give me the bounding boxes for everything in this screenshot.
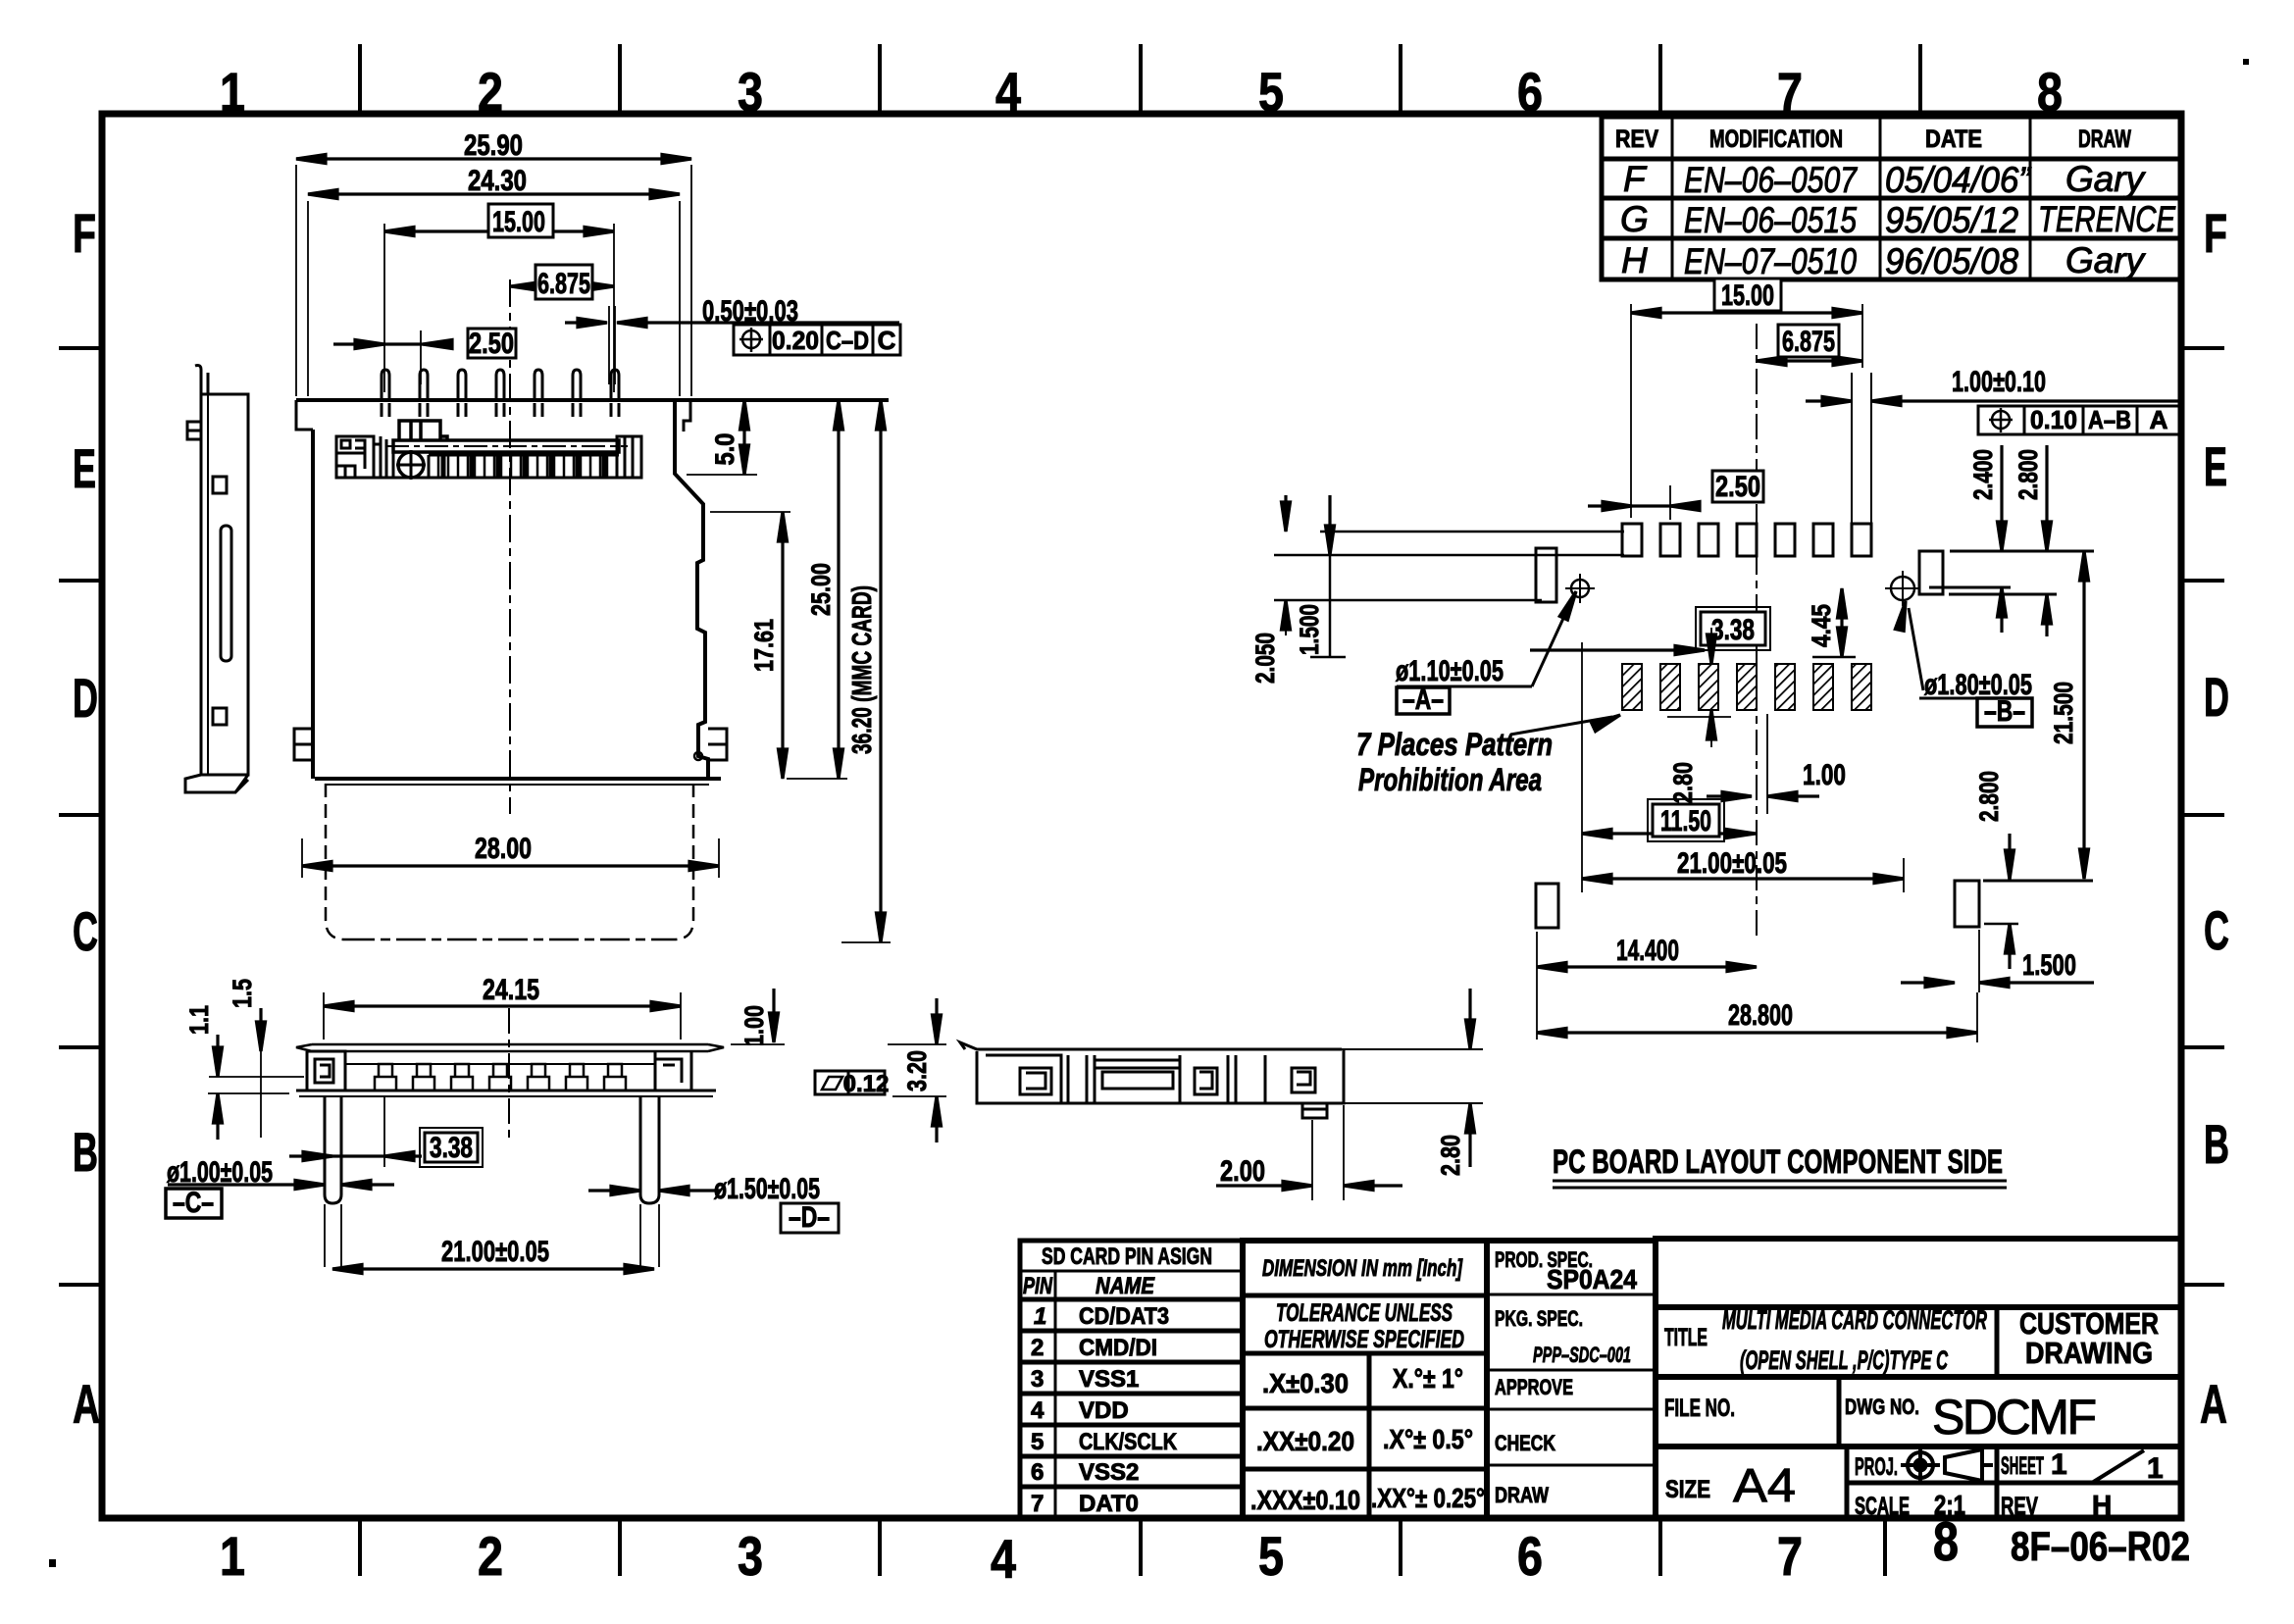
svg-text:DRAWING: DRAWING <box>2025 1336 2153 1370</box>
svg-text:REV: REV <box>2001 1493 2038 1520</box>
svg-text:0.50±0.03: 0.50±0.03 <box>702 295 798 328</box>
leg extension lines <box>325 1096 659 1267</box>
svg-text:–C–: –C– <box>173 1187 214 1219</box>
svg-text:21.00±0.05: 21.00±0.05 <box>1677 847 1787 880</box>
svg-text:APPROVE: APPROVE <box>1495 1375 1573 1399</box>
svg-text:REV: REV <box>1615 126 1658 153</box>
border row letters right <box>2200 202 2229 1435</box>
feature control frame A-B <box>1978 406 2181 434</box>
sheet slash <box>2092 1450 2144 1483</box>
hatched pad 7 <box>1852 664 1871 710</box>
svg-text:VSS1: VSS1 <box>1079 1366 1139 1393</box>
svg-text:PIN: PIN <box>1023 1273 1052 1299</box>
svg-text:A–B: A–B <box>2088 405 2131 434</box>
center line <box>509 279 511 814</box>
svg-text:28.800: 28.800 <box>1728 999 1793 1032</box>
dim 28.800 <box>1537 992 1977 1042</box>
svg-text:MODIFICATION: MODIFICATION <box>1709 126 1843 153</box>
side view long slot <box>221 526 231 661</box>
side view left tab <box>187 422 201 439</box>
trace line top <box>1320 531 1624 533</box>
shell left edge <box>311 430 315 779</box>
svg-text:C: C <box>2204 899 2229 961</box>
right end block <box>655 1051 682 1091</box>
main block <box>1656 1239 2181 1518</box>
main block text <box>1664 1305 2164 1520</box>
dim 2.50 boxed (pcb) <box>1588 471 1763 520</box>
svg-text:PROJ.: PROJ. <box>1855 1453 1898 1481</box>
pin 5 <box>535 370 542 417</box>
card bottom center line <box>345 939 674 941</box>
svg-text:6.875: 6.875 <box>537 268 590 300</box>
right ref lines <box>1342 1048 1483 1050</box>
stray dots <box>2243 59 2249 65</box>
svg-text:1.500: 1.500 <box>1295 604 1324 655</box>
svg-text:TOLERANCE UNLESS: TOLERANCE UNLESS <box>1276 1299 1453 1327</box>
svg-text:.X°± 0.5°: .X°± 0.5° <box>1383 1424 1473 1454</box>
hatched pad 6 <box>1813 664 1833 710</box>
svg-text:14.400: 14.400 <box>1616 935 1679 967</box>
dim 21.00±0.05 (pcb) <box>1582 642 1904 892</box>
svg-text:SCALE: SCALE <box>1855 1493 1910 1520</box>
left ticks <box>59 346 102 350</box>
svg-text:.XX°± 0.25°: .XX°± 0.25° <box>1371 1483 1485 1513</box>
svg-text:TITLE: TITLE <box>1664 1324 1708 1351</box>
svg-text:–A–: –A– <box>1402 684 1444 716</box>
pad 7 edge extensions <box>1851 373 1853 524</box>
svg-text:SDCMF: SDCMF <box>1932 1390 2097 1445</box>
dim 25.00 <box>787 400 847 779</box>
hole A <box>1571 580 1589 597</box>
pin 7 <box>611 370 619 417</box>
projection symbol <box>1901 1446 1993 1485</box>
svg-text:SD CARD PIN ASIGN: SD CARD PIN ASIGN <box>1042 1243 1212 1270</box>
pin 4 <box>496 370 504 417</box>
svg-text:7: 7 <box>1777 1525 1803 1587</box>
top plate with tip <box>960 1042 1342 1049</box>
svg-text:F: F <box>73 202 96 264</box>
svg-text:5: 5 <box>1031 1429 1044 1455</box>
svg-text:2:1: 2:1 <box>1934 1490 1965 1520</box>
svg-text:1: 1 <box>1034 1303 1046 1330</box>
dim 21.500 <box>1950 551 2094 879</box>
svg-text:1: 1 <box>2051 1448 2067 1481</box>
svg-text:8: 8 <box>2037 61 2063 123</box>
svg-text:11.50: 11.50 <box>1660 805 1711 837</box>
svg-text:2.800: 2.800 <box>2014 449 2043 500</box>
dim 3.38 boxed (pcb) <box>1530 607 1770 655</box>
pin 1 <box>382 370 389 417</box>
svg-text:B: B <box>2204 1113 2229 1175</box>
svg-text:F: F <box>2204 202 2227 264</box>
bottom foot <box>1302 1103 1327 1118</box>
label ø1.10±0.05 -A- <box>1396 589 1580 716</box>
bottom right pad <box>1955 881 1979 927</box>
dim 24.30 <box>308 165 680 396</box>
dim 24.15 <box>324 974 681 1040</box>
svg-text:2.00: 2.00 <box>1220 1155 1265 1188</box>
svg-text:.X±0.30: .X±0.30 <box>1262 1368 1349 1398</box>
svg-text:15.00: 15.00 <box>1721 279 1774 312</box>
svg-text:Gary: Gary <box>2065 159 2146 199</box>
left mount tab <box>294 729 313 760</box>
pin 6 <box>573 370 581 417</box>
right mount tab <box>708 729 727 760</box>
svg-text:PPP–SDC–001: PPP–SDC–001 <box>1533 1343 1631 1367</box>
svg-text:D: D <box>73 667 98 729</box>
left anchor pad <box>1536 548 1556 602</box>
dim 1.5 <box>228 979 266 1138</box>
dim 2.400 <box>1968 445 2007 633</box>
contact right end block <box>617 436 641 478</box>
svg-text:3: 3 <box>738 61 763 123</box>
svg-text:3: 3 <box>738 1525 763 1587</box>
dim 11.50 boxed <box>1582 799 1756 841</box>
dim 14.400 <box>1537 932 1757 1040</box>
svg-text:2.400: 2.400 <box>1968 449 1998 500</box>
svg-text:05/04/06”: 05/04/06” <box>1885 160 2032 200</box>
svg-text:C: C <box>73 900 98 962</box>
svg-text:DWG NO.: DWG NO. <box>1845 1395 1919 1419</box>
svg-text:DAT0: DAT0 <box>1079 1491 1139 1517</box>
feature control frame C-D <box>734 325 900 355</box>
svg-text:2.50: 2.50 <box>469 328 514 360</box>
contact comb band <box>336 455 641 478</box>
svg-text:SP0A24: SP0A24 <box>1547 1264 1637 1294</box>
hatched pad 4 <box>1737 664 1757 710</box>
dim ø1.00±0.05 -C- <box>166 1156 394 1219</box>
svg-text:5: 5 <box>1258 61 1284 123</box>
svg-text:C–D: C–D <box>826 326 869 355</box>
svg-text:CHECK: CHECK <box>1495 1431 1555 1455</box>
svg-text:3.38: 3.38 <box>430 1132 473 1164</box>
svg-text:G: G <box>1620 199 1649 239</box>
right leg <box>640 1096 659 1203</box>
pad 1 <box>1622 524 1642 556</box>
side view body <box>201 394 248 775</box>
svg-text:2: 2 <box>478 1525 503 1587</box>
svg-text:0.12: 0.12 <box>843 1071 890 1097</box>
dim 3.38 boxed <box>289 1128 483 1167</box>
left end block <box>307 1051 345 1091</box>
tolerance block <box>1243 1241 1487 1518</box>
svg-text:B: B <box>73 1121 98 1183</box>
hatched pad 5 <box>1775 664 1795 710</box>
svg-text:6: 6 <box>1517 1525 1543 1587</box>
approval block text <box>1495 1247 1637 1507</box>
svg-text:24.30: 24.30 <box>468 165 527 197</box>
svg-text:2.800: 2.800 <box>1974 771 2004 822</box>
svg-text:OTHERWISE SPECIFIED: OTHERWISE SPECIFIED <box>1264 1326 1464 1353</box>
svg-text:E: E <box>73 437 96 499</box>
dim 17.61 <box>710 512 790 779</box>
svg-text:95/05/12: 95/05/12 <box>1885 200 2018 240</box>
dim 2.80 (side view 2) <box>1436 989 1475 1176</box>
dim 21.00±0.05 (bottom view) <box>332 1236 654 1274</box>
card outline dashed right <box>674 784 693 939</box>
svg-text:NAME: NAME <box>1096 1273 1155 1299</box>
side view lower inner square <box>213 708 227 725</box>
svg-text:3.38: 3.38 <box>1711 614 1755 646</box>
latch plate <box>374 436 393 479</box>
side view bottom foot <box>185 775 248 792</box>
svg-text:EN–06–0507: EN–06–0507 <box>1684 160 1858 200</box>
svg-text:C: C <box>878 326 896 355</box>
svg-text:1.00±0.10: 1.00±0.10 <box>1952 366 2046 398</box>
svg-text:3: 3 <box>1031 1366 1044 1393</box>
svg-text:6: 6 <box>1031 1459 1044 1486</box>
tolerance block text <box>1262 1255 1463 1282</box>
pad 2 <box>1660 524 1680 556</box>
dim 1.00 (bottom view) <box>731 989 785 1046</box>
svg-text:3.20: 3.20 <box>902 1050 932 1091</box>
border row letters left <box>73 202 100 1435</box>
side view top pin <box>195 366 208 395</box>
svg-text:0.10: 0.10 <box>2030 405 2077 434</box>
body <box>977 1049 1344 1103</box>
svg-text:–B–: –B– <box>1984 695 2025 728</box>
svg-text:28.00: 28.00 <box>475 833 532 865</box>
svg-text:25.90: 25.90 <box>464 129 523 162</box>
border zone numbers bottom <box>220 1510 1959 1590</box>
dim 1.00±0.10 <box>1806 366 2183 406</box>
dim 6.875 boxed <box>511 265 614 300</box>
svg-text:DATE: DATE <box>1925 126 1982 153</box>
svg-text:A: A <box>2200 1373 2227 1435</box>
svg-text:5.0: 5.0 <box>710 433 739 466</box>
svg-text:2.050: 2.050 <box>1250 633 1280 684</box>
body outline <box>307 1051 691 1091</box>
svg-text:1.00: 1.00 <box>739 1005 769 1046</box>
dim 4.45 <box>1807 588 1856 657</box>
svg-text:ø1.00±0.05: ø1.00±0.05 <box>167 1156 273 1189</box>
svg-text:–D–: –D– <box>789 1201 830 1234</box>
dim 36.20 (MMC CARD) <box>841 400 891 942</box>
trace line hole-A <box>1274 599 1542 602</box>
svg-text:17.61: 17.61 <box>749 619 779 672</box>
dim 28.00 <box>302 833 719 878</box>
svg-text:A: A <box>73 1373 100 1435</box>
pin 2 <box>420 370 428 417</box>
svg-text:X.°± 1°: X.°± 1° <box>1393 1363 1463 1394</box>
contact block top bar <box>393 440 619 452</box>
dim 2.80 (pcb) <box>1667 628 1731 803</box>
svg-text:EN–07–0510: EN–07–0510 <box>1684 241 1857 281</box>
shell bottom edge <box>315 777 721 781</box>
bottom left pad <box>1536 884 1558 928</box>
svg-text:D: D <box>2204 666 2229 728</box>
svg-text:4: 4 <box>991 1528 1016 1590</box>
svg-text:Gary: Gary <box>2065 240 2146 280</box>
connector shell top edge <box>296 398 889 402</box>
svg-text:2: 2 <box>1031 1335 1044 1361</box>
pad 3 <box>1699 524 1718 556</box>
svg-text:0.20: 0.20 <box>772 326 819 355</box>
svg-text:CMD/DI: CMD/DI <box>1079 1335 1157 1361</box>
svg-text:1: 1 <box>220 61 245 123</box>
shell right profile <box>675 400 708 779</box>
svg-text:CLK/SCLK: CLK/SCLK <box>1079 1429 1178 1455</box>
svg-text:6: 6 <box>1517 61 1543 123</box>
bottom ticks <box>358 1518 362 1576</box>
svg-text:DRAW: DRAW <box>2078 126 2131 153</box>
svg-text:(OPEN SHELL ,P/C)TYPE C: (OPEN SHELL ,P/C)TYPE C <box>1740 1345 1948 1375</box>
dim 25.90 <box>296 129 691 396</box>
pin table <box>1020 1241 1243 1518</box>
svg-text:Prohibition Area: Prohibition Area <box>1358 762 1542 797</box>
svg-text:DIMENSION IN mm [Inch]: DIMENSION IN mm [Inch] <box>1262 1255 1463 1282</box>
dim 2.50 boxed <box>333 328 516 384</box>
trace line middle <box>1274 554 1624 557</box>
svg-text:1.00: 1.00 <box>1803 759 1846 791</box>
shell right lip <box>684 400 690 431</box>
svg-text:8F–06–R02: 8F–06–R02 <box>2011 1523 2190 1569</box>
pad 6 <box>1813 524 1833 556</box>
hatched pad 1 <box>1622 664 1642 710</box>
svg-text:E: E <box>2204 435 2227 497</box>
dim 0.50±0.03 <box>565 295 899 384</box>
svg-text:2.50: 2.50 <box>1715 471 1760 503</box>
note 7 places pattern <box>1356 711 1622 797</box>
dim 3.20 <box>888 998 946 1142</box>
svg-text:VSS2: VSS2 <box>1079 1459 1139 1486</box>
svg-text:25.00: 25.00 <box>806 563 836 616</box>
dim 2.800 (lower right) <box>1974 771 2093 969</box>
dim 1.00 (pcb) <box>1707 714 1846 814</box>
dim 1.1 <box>184 1005 304 1140</box>
svg-text:SHEET: SHEET <box>2001 1452 2044 1480</box>
hole B <box>1891 577 1914 600</box>
dim 1.500 (pcb left) <box>1295 495 1346 657</box>
dim 2.800 top <box>2014 445 2052 636</box>
contact housing left block <box>336 436 374 478</box>
top bar centerline <box>385 445 628 447</box>
hatched pad 2 <box>1660 664 1680 710</box>
svg-text:H: H <box>2092 1490 2112 1520</box>
flatness frame 0.12 <box>815 1071 885 1094</box>
pad 7 <box>1852 524 1871 556</box>
inner blocks <box>986 1055 1068 1103</box>
svg-text:4: 4 <box>995 61 1021 123</box>
svg-text:1: 1 <box>2147 1452 2164 1485</box>
svg-text:SIZE: SIZE <box>1665 1476 1710 1503</box>
hatched pad 3 <box>1699 664 1718 710</box>
svg-text:6.875: 6.875 <box>1782 326 1835 358</box>
svg-text:F: F <box>1623 159 1648 199</box>
screw boss <box>398 452 424 478</box>
svg-text:1: 1 <box>220 1525 245 1587</box>
svg-text:7: 7 <box>1777 61 1803 123</box>
right ticks <box>2181 346 2224 350</box>
label ø1.80±0.05 -B- <box>1895 600 2032 728</box>
svg-text:7: 7 <box>1031 1491 1044 1517</box>
svg-text:DRAW: DRAW <box>1495 1483 1549 1507</box>
svg-text:A4: A4 <box>1733 1460 1796 1512</box>
svg-text:.XX±0.20: .XX±0.20 <box>1256 1426 1354 1456</box>
svg-text:MULTI MEDIA CARD CONNECTOR: MULTI MEDIA CARD CONNECTOR <box>1722 1305 1987 1335</box>
contact feet row <box>375 1064 626 1091</box>
top plate <box>296 1044 724 1051</box>
centerline bottom view <box>508 1008 510 1138</box>
svg-text:2.80: 2.80 <box>1436 1135 1465 1176</box>
svg-text:15.00: 15.00 <box>492 206 545 238</box>
right anchor pad <box>1919 551 1943 594</box>
svg-text:TERENCE: TERENCE <box>2038 199 2176 239</box>
left leg <box>325 1096 341 1203</box>
svg-text:EN–06–0515: EN–06–0515 <box>1684 200 1857 240</box>
dim 5.0 <box>687 400 757 475</box>
svg-text:CD/DAT3: CD/DAT3 <box>1079 1303 1169 1330</box>
svg-text:FILE NO.: FILE NO. <box>1664 1395 1735 1422</box>
card outline dashed left <box>326 784 345 939</box>
pad 5 <box>1775 524 1795 556</box>
approval block <box>1487 1241 1656 1518</box>
svg-text:5: 5 <box>1258 1525 1284 1587</box>
border zone numbers top <box>220 61 2063 123</box>
dim 15.00 boxed (pcb) <box>1631 279 1862 518</box>
svg-text:H: H <box>1621 240 1648 280</box>
svg-text:PKG. SPEC.: PKG. SPEC. <box>1495 1306 1583 1331</box>
pcb centerline <box>1756 324 1758 941</box>
pad 4 <box>1737 524 1757 556</box>
dim 2.050 <box>1250 495 1291 684</box>
dim 15.00 boxed <box>384 204 614 392</box>
pin 3 <box>458 370 466 417</box>
svg-text:36.20 (MMC CARD): 36.20 (MMC CARD) <box>846 585 877 754</box>
dim 6.875 boxed (pcb) <box>1757 325 1862 366</box>
svg-text:.XXX±0.10: .XXX±0.10 <box>1250 1485 1360 1515</box>
svg-text:96/05/08: 96/05/08 <box>1885 241 2018 281</box>
svg-text:24.15: 24.15 <box>483 974 539 1006</box>
svg-text:VDD: VDD <box>1079 1397 1129 1424</box>
dim 2.00 <box>1216 1105 1402 1200</box>
svg-text:4.45: 4.45 <box>1807 604 1836 647</box>
svg-text:2.80: 2.80 <box>1668 762 1698 803</box>
svg-text:1.5: 1.5 <box>228 979 257 1008</box>
contact raised block <box>399 421 447 441</box>
svg-text:2: 2 <box>478 61 503 123</box>
shell left lip <box>296 400 313 430</box>
inner frame rectangle <box>102 114 2181 1518</box>
svg-text:4: 4 <box>1031 1397 1045 1424</box>
contact strip <box>345 1063 655 1065</box>
svg-text:21.500: 21.500 <box>2049 682 2078 744</box>
dim 1.500 (bottom right) <box>1901 930 2094 992</box>
dim ø1.50±0.05 -D- <box>588 1173 839 1234</box>
pin table text <box>1023 1243 1212 1517</box>
bottom lines <box>296 1090 716 1092</box>
side view upper inner square <box>213 477 227 493</box>
svg-text:1.1: 1.1 <box>184 1005 214 1035</box>
svg-text:21.00±0.05: 21.00±0.05 <box>441 1236 549 1268</box>
svg-text:A: A <box>2150 405 2168 434</box>
svg-text:1.500: 1.500 <box>2022 949 2076 982</box>
svg-text:PC BOARD LAYOUT COMPONENT: PC BOARD LAYOUT COMPONENT SIDE <box>1553 1143 2003 1181</box>
